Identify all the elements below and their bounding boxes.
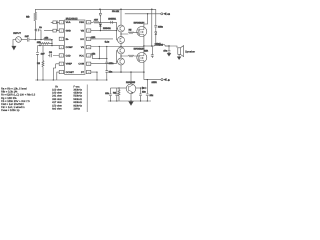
wire GND pin <box>44 30 59 32</box>
wire OCSET pin <box>57 72 59 80</box>
node COM b <box>120 71 121 72</box>
notes table left <box>1 88 36 113</box>
svg-text:7: 7 <box>61 71 62 74</box>
transistor Q3 driver NPN <box>118 47 125 54</box>
wire IN- row <box>38 45 60 47</box>
node -B col <box>147 79 148 80</box>
svg-text:1: 1 <box>61 21 62 24</box>
svg-text:-B: -B <box>167 79 170 82</box>
svg-text:+B: +B <box>167 13 171 16</box>
capacitor C7 <box>105 71 108 73</box>
capacitor C2 shunt <box>36 53 39 81</box>
svg-text:10n: 10n <box>105 92 109 95</box>
node IN- b <box>51 45 52 46</box>
node bot b <box>116 100 117 101</box>
svg-text:11: 11 <box>88 63 90 66</box>
node emitters <box>120 33 121 34</box>
svg-text:10u: 10u <box>150 94 154 97</box>
svg-text:6x0 ohm: 6x0 ohm <box>52 108 62 111</box>
node input junction <box>35 39 36 40</box>
node rail b <box>42 79 43 80</box>
svg-text:VREF: VREF <box>66 63 73 66</box>
svg-text:22uH: 22uH <box>155 42 161 45</box>
svg-text:IRFI4019H: IRFI4019H <box>134 48 145 51</box>
resistor R4 <box>93 21 116 23</box>
svg-text:COM: COM <box>78 63 84 66</box>
ground speaker <box>177 57 180 60</box>
wire input node to R1 <box>35 39 43 41</box>
svg-text:GND: GND <box>66 30 72 33</box>
wire COM corner to -B <box>144 79 161 81</box>
ground bottom <box>129 101 133 105</box>
table Rt / Fosc <box>52 85 83 110</box>
pin labels right <box>78 21 84 74</box>
wire COM row rail <box>91 71 144 73</box>
wire M2 source <box>143 62 145 79</box>
wire to speaker <box>165 46 177 48</box>
node HO base <box>116 30 117 31</box>
wire Q5 collector <box>130 72 132 84</box>
svg-text:1MHz: 1MHz <box>73 108 80 111</box>
svg-text:14: 14 <box>88 38 90 41</box>
terminal +B <box>161 13 163 15</box>
wire LO row <box>91 63 117 65</box>
capacitor C5 bootstrap series <box>111 21 113 24</box>
svg-text:12: 12 <box>88 54 90 57</box>
svg-text:CSH: CSH <box>79 21 84 24</box>
svg-text:47n: 47n <box>163 50 167 53</box>
svg-text:5: 5 <box>61 54 62 57</box>
pin boxes left <box>59 21 63 74</box>
node output feedback tap <box>151 45 152 46</box>
wire Q1 collector to rail <box>120 9 122 25</box>
node rail-zener junction <box>99 9 101 11</box>
terminal -B <box>161 79 163 81</box>
wire DT drop <box>96 72 98 80</box>
wire speaker bottom <box>178 54 180 56</box>
wire VSS base line <box>112 87 126 89</box>
pin numbers left <box>61 21 62 74</box>
pin labels left <box>66 21 75 74</box>
capacitor C13 <box>139 88 142 101</box>
resistor RFB feedback <box>34 9 37 30</box>
svg-text:10: 10 <box>88 71 90 74</box>
transistor Q1 driver NPN <box>118 25 125 32</box>
svg-text:Speaker: Speaker <box>185 50 195 53</box>
svg-text:10u: 10u <box>142 91 146 94</box>
svg-text:R5: R5 <box>129 29 133 32</box>
svg-text:3: 3 <box>61 38 62 41</box>
ground C10 <box>167 53 170 56</box>
svg-text:1n: 1n <box>39 26 42 29</box>
svg-text:FB 10k: FB 10k <box>112 10 120 13</box>
wire feedback down <box>34 30 36 40</box>
wire base to caps <box>111 87 113 89</box>
wire bottom rail <box>35 79 107 81</box>
node HO a <box>100 30 101 31</box>
svg-text:2N5551: 2N5551 <box>108 18 116 21</box>
node D1 row1 <box>100 22 101 23</box>
wire Q1-Q2 emitters <box>121 32 128 37</box>
svg-text:2: 2 <box>61 29 62 32</box>
svg-text:VB: VB <box>81 30 85 33</box>
wire link vertical <box>98 47 100 59</box>
wire base drive HS <box>117 22 118 40</box>
wire VCC row jog <box>91 55 107 59</box>
wire CSD pin <box>48 54 59 57</box>
svg-text:16: 16 <box>88 21 90 24</box>
svg-text:15: 15 <box>88 29 90 32</box>
svg-text:10k: 10k <box>92 52 96 55</box>
svg-text:OCSET: OCSET <box>66 71 75 74</box>
wire table divider <box>86 85 88 113</box>
svg-text:C4: C4 <box>49 51 53 54</box>
capacitor C10 output <box>168 46 171 53</box>
capacitor C4b GND box <box>53 29 57 32</box>
inductor L1 <box>154 45 169 47</box>
capacitor C12 <box>115 88 118 101</box>
pin boxes right <box>86 21 90 74</box>
wire VREF pin <box>53 64 59 80</box>
speaker SP1 <box>178 48 181 55</box>
resistor R9 zobel <box>151 46 154 58</box>
resistor R8 <box>118 88 120 101</box>
wire bottom-most rail <box>108 100 151 102</box>
node bot e <box>147 100 148 101</box>
wire VB row right <box>91 21 94 23</box>
svg-text:1uF: 1uF <box>25 35 29 38</box>
node COM a <box>96 72 97 73</box>
wire base right <box>136 87 142 89</box>
node rail-output-feedback junction <box>151 9 153 11</box>
resistor R1 input series <box>43 39 52 41</box>
wire top feedback rail <box>35 8 156 10</box>
svg-text:10R: 10R <box>144 50 148 53</box>
wire shunt down <box>37 46 39 53</box>
node CSH b <box>106 46 107 47</box>
node rail d <box>96 79 97 80</box>
svg-text:10R: 10R <box>91 36 95 39</box>
node bot a <box>110 100 111 101</box>
node rail a <box>37 79 38 80</box>
transistor Q2 driver PNP <box>118 37 125 44</box>
svg-text:VCC: VCC <box>79 54 84 57</box>
node COM c <box>130 71 131 72</box>
svg-text:IN-: IN- <box>66 38 69 41</box>
wire CSH row to low cell <box>91 46 144 49</box>
node COM d <box>143 71 144 72</box>
transistor Q4 driver PNP <box>118 58 125 65</box>
node rail c <box>53 79 54 80</box>
ground input <box>13 40 16 47</box>
IC U1 body <box>65 20 86 74</box>
node Q3 collector <box>120 46 121 47</box>
wire input to cap <box>21 39 27 41</box>
transistor Q5 regulator <box>126 84 136 94</box>
svg-text:0.1u: 0.1u <box>105 41 110 44</box>
svg-text:VAA: VAA <box>66 21 71 24</box>
resistor R5 gate high <box>128 32 138 34</box>
svg-text:100n: 100n <box>158 25 164 28</box>
resistor R3 shunt <box>42 46 44 80</box>
svg-text:DT: DT <box>81 71 85 74</box>
wire M1 drain to +B <box>144 14 148 27</box>
capacitor C11 <box>109 88 112 101</box>
node base b <box>140 87 141 88</box>
svg-text:R3: R3 <box>37 62 41 65</box>
resistor R7 gate low <box>128 55 138 57</box>
wire zener col <box>146 80 148 94</box>
capacitor C6 <box>105 62 108 64</box>
svg-text:VS: VS <box>81 46 85 49</box>
source V1 signal <box>16 37 22 43</box>
wire cap chain vertical <box>106 47 108 81</box>
transistor M2 low-side MOSFET <box>137 53 147 63</box>
diode D3 zener <box>155 32 157 44</box>
wire Q3-Q4 emitters <box>121 54 128 58</box>
wire VAA pin <box>51 20 59 30</box>
svg-text:13: 13 <box>88 46 90 49</box>
capacitor C9 <box>154 44 157 46</box>
wire M2 drain <box>143 46 145 53</box>
wire +B line <box>125 13 161 15</box>
wire M1 source to output <box>143 36 145 46</box>
node bot d <box>140 100 141 101</box>
node feedback tap <box>35 29 36 30</box>
wire output node line <box>144 45 154 47</box>
svg-text:Rfb: Rfb <box>26 16 30 19</box>
node CSH a <box>99 46 100 47</box>
svg-text:100R: 100R <box>152 81 158 84</box>
diode D2 row1-row2 <box>99 24 101 31</box>
node rail-driver junction <box>120 9 122 11</box>
node R1 junction <box>40 39 41 40</box>
svg-text:COMP: COMP <box>66 46 74 49</box>
node col top <box>51 39 52 40</box>
capacitor C14 <box>146 94 149 101</box>
capacitor C3 VAA box <box>53 21 57 24</box>
resistor R2 lower <box>40 43 52 45</box>
transistor M1 high-side MOSFET <box>137 27 147 37</box>
svg-text:6: 6 <box>61 63 62 66</box>
node rail e <box>106 79 107 80</box>
wire Q5 emitter <box>130 94 132 102</box>
capacitor CFB parallel <box>35 29 41 40</box>
node drain junction <box>147 13 148 14</box>
svg-text:IRS2092S: IRS2092S <box>66 17 78 20</box>
capacitor CIN coupling <box>27 38 35 42</box>
wire base drive LS <box>117 51 118 64</box>
wire Q2 to <box>120 43 122 46</box>
wire decoupling branch <box>155 9 157 25</box>
pin numbers right <box>88 21 90 74</box>
wire VS row <box>91 38 113 40</box>
diode D1 zener rail <box>99 9 101 22</box>
node VCC-CSH link <box>99 58 100 59</box>
svg-text:IRFI4019H: IRFI4019H <box>134 21 145 24</box>
svg-text:2N5401: 2N5401 <box>103 27 111 30</box>
wire pin column vertical <box>51 40 53 46</box>
node emitters LS <box>120 55 121 56</box>
node bot c <box>130 100 131 101</box>
svg-text:HO: HO <box>80 38 84 41</box>
wire HO row <box>91 30 117 32</box>
node col mid <box>51 43 52 44</box>
node zobel tap <box>168 45 169 46</box>
svg-text:CSD: CSD <box>66 54 71 57</box>
capacitor C8 <box>154 25 157 31</box>
diode D4 <box>142 87 147 89</box>
wire Q3 collector up <box>120 65 122 72</box>
svg-text:INPUT: INPUT <box>13 32 21 35</box>
node output high <box>143 45 144 46</box>
wire feedback vertical right <box>151 9 153 46</box>
svg-text:Cvaa = 100n 1p: Cvaa = 100n 1p <box>1 109 20 112</box>
svg-text:4: 4 <box>61 46 62 49</box>
node IN- a <box>39 45 40 46</box>
wire R2 left leg <box>39 43 41 45</box>
node base a <box>118 87 119 88</box>
